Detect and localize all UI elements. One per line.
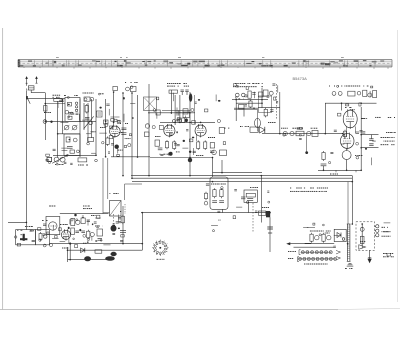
svg-text:B5473A: B5473A [293,76,308,81]
